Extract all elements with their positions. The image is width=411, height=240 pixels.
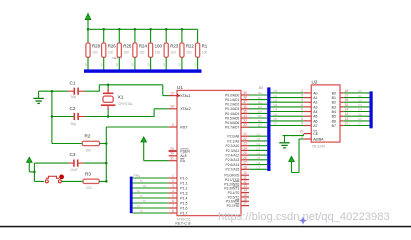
svg-text:10: 10 (146, 63, 150, 67)
junction on top rail (118, 28, 121, 31)
wire to RST pin (106, 126, 168, 128)
svg-text:R3: R3 (85, 172, 91, 177)
pin 14 B4 (U2 right) (332, 108, 349, 114)
capacitor C3 (69, 152, 85, 172)
pin 23 P2.2/A10 (U1 right) (226, 142, 249, 148)
bus BR (below resistors) (84, 69, 202, 72)
resistor R25 (115, 29, 132, 69)
svg-text:23: 23 (243, 142, 247, 146)
svg-text:37: 37 (243, 100, 247, 104)
svg-text:C5: C5 (257, 156, 261, 160)
pin 18 XTAL2 (U1 left) (169, 105, 191, 112)
wire RST vertical (105, 127, 107, 181)
svg-text:21: 21 (243, 132, 247, 136)
svg-text:B2: B2 (332, 101, 336, 105)
XTAL1 pin arrow (177, 94, 180, 98)
svg-text:73: 73 (143, 199, 147, 203)
wire left vertical to R2 (52, 143, 82, 145)
svg-text:B3: B3 (332, 105, 336, 109)
svg-text:27: 27 (243, 161, 247, 165)
wire P2.3 to bus (249, 149, 267, 151)
pin 35 P0.4/AD4 (U1 right) (225, 109, 249, 115)
svg-text:35: 35 (243, 109, 247, 113)
pin 37 P0.2/AD2 (U1 right) (225, 100, 249, 106)
op-amp U2 body (74LS245) (311, 85, 340, 142)
pin 16 P3.6/WR (U1 right) (226, 197, 249, 203)
svg-text:D1: D1 (274, 94, 278, 98)
junction R2 / RST vertical (105, 142, 108, 145)
wire P0.0 to bus (249, 94, 267, 96)
svg-text:R26: R26 (108, 44, 117, 49)
wire P0.1 to bus (249, 99, 267, 101)
svg-text:30: 30 (170, 152, 174, 156)
svg-text:P0.0/AD0: P0.0/AD0 (225, 93, 239, 97)
svg-text:18: 18 (170, 105, 174, 109)
junction crystal top (107, 84, 110, 87)
svg-text:D6: D6 (274, 117, 278, 121)
svg-text:32: 32 (243, 123, 247, 127)
pin 36 P0.3/AD3 (U1 right) (225, 105, 249, 111)
svg-text:15: 15 (243, 193, 247, 197)
svg-text:9: 9 (301, 122, 303, 126)
svg-text:P0.1/AD1: P0.1/AD1 (225, 98, 239, 102)
svg-text:A1: A1 (313, 96, 317, 100)
svg-text:7: 7 (172, 204, 174, 208)
pin 5 A3 (U2 left) (301, 103, 317, 109)
svg-text:28: 28 (243, 165, 247, 169)
svg-text:13: 13 (243, 184, 247, 188)
svg-text:D2: D2 (274, 98, 278, 102)
svg-text:74LS245: 74LS245 (312, 145, 326, 149)
capacitor C1 (68, 80, 86, 99)
pin 12 B6 (U2 right) (332, 117, 349, 123)
svg-text:71: 71 (140, 179, 144, 183)
svg-text:75: 75 (140, 209, 144, 213)
svg-text:D5: D5 (258, 114, 262, 118)
svg-text:300: 300 (86, 148, 92, 152)
wire P1.2 to bus (133, 187, 169, 189)
wire bus to U2 A1 (271, 97, 304, 99)
svg-text:100: 100 (155, 44, 163, 49)
svg-text:72: 72 (140, 194, 144, 198)
wire P2.5 to bus (249, 159, 267, 161)
wire C3 left vertical (33, 163, 35, 181)
junction R3 / RST vertical (105, 180, 108, 183)
power symbol VCC (top rail) (85, 14, 90, 20)
resistor R24 (131, 29, 148, 69)
pin 15 P3.5/T1 (U1 right) (228, 193, 249, 199)
wire P2.4 to bus (249, 154, 267, 156)
pin 4 P1.3 (U1 left) (169, 189, 188, 196)
pin 13 B5 (U2 right) (332, 112, 349, 118)
svg-text:C7: C7 (257, 166, 261, 170)
wire U2 B7 to bus (344, 125, 370, 127)
power symbol VCC (reset) (27, 157, 32, 162)
svg-text:70: 70 (137, 189, 141, 193)
junction C3 / RST vertical (105, 162, 108, 165)
svg-text:100: 100 (108, 50, 114, 54)
svg-text:EA: EA (180, 159, 185, 163)
svg-text:100: 100 (124, 50, 130, 54)
svg-text:100: 100 (92, 50, 98, 54)
wire U2 B1 to bus (344, 97, 370, 99)
svg-text:17: 17 (345, 94, 349, 98)
wire switch to R3 (61, 180, 83, 182)
wire C3 left (34, 162, 68, 164)
svg-text:R25: R25 (123, 44, 132, 49)
svg-text:C0: C0 (257, 132, 261, 136)
pin 13 P3.3/INT1 (U1 right) (224, 184, 249, 190)
svg-text:11: 11 (243, 176, 247, 180)
svg-text:30p: 30p (71, 122, 77, 126)
svg-text:A0: A0 (313, 91, 317, 95)
svg-text:XTAL1: XTAL1 (180, 94, 190, 98)
svg-text:10: 10 (193, 63, 197, 67)
wire P0.5 to bus (249, 117, 267, 119)
svg-text:AB/BA: AB/BA (313, 137, 324, 141)
wire P1.0 to bus (133, 177, 169, 179)
wire switch row left (34, 180, 44, 182)
wire arrow hook (29, 171, 34, 173)
svg-text:D4: D4 (258, 110, 262, 114)
svg-text:P0.2/AD2: P0.2/AD2 (225, 103, 239, 107)
junction C2 left (51, 115, 54, 118)
svg-text:P2.7/A15: P2.7/A15 (226, 168, 240, 172)
svg-text:39: 39 (243, 91, 247, 95)
svg-text:P3.1/TXD: P3.1/TXD (225, 178, 240, 182)
pin 3 P1.2 (U1 left) (169, 184, 188, 191)
svg-text:D2: D2 (258, 100, 262, 104)
svg-text:P0.4/AD4: P0.4/AD4 (225, 112, 239, 116)
svg-text:P2.0/A8: P2.0/A8 (227, 135, 239, 139)
svg-text:P3.7/RD: P3.7/RD (227, 204, 240, 208)
junction on top rail (134, 28, 137, 31)
junction on top rail (87, 28, 90, 31)
svg-text:C1: C1 (358, 94, 362, 98)
svg-text:D7: D7 (258, 123, 262, 127)
svg-text:100: 100 (139, 50, 145, 54)
svg-text:D3: D3 (274, 103, 278, 107)
svg-text:A5: A5 (313, 115, 317, 119)
svg-text:R28: R28 (92, 44, 101, 49)
wire bus to U2 A4 (271, 111, 304, 113)
pin 32 P0.7/AD7 (U1 right) (225, 123, 249, 129)
junction arrow / C3 vertical (33, 171, 36, 174)
wire P1.3 to bus (133, 192, 169, 194)
svg-text:34: 34 (243, 114, 247, 118)
svg-text:C6: C6 (358, 117, 362, 121)
pin 33 P0.6/AD6 (U1 right) (225, 119, 249, 125)
svg-text:P2.1/A9: P2.1/A9 (227, 139, 239, 143)
svg-text:19: 19 (299, 130, 303, 134)
pin 1 P1.0 (U1 left) (169, 174, 188, 181)
pin 8 P1.7 (U1 left) (169, 209, 188, 216)
wire P2.1 to bus (249, 140, 267, 142)
wire EA (144, 160, 169, 162)
pin 11 P3.1/TXD (U1 right) (225, 176, 249, 182)
svg-text:C1: C1 (70, 80, 76, 85)
svg-text:13: 13 (345, 112, 349, 116)
svg-text:C3: C3 (257, 147, 261, 151)
svg-text:P1.0: P1.0 (180, 176, 187, 180)
svg-text:36: 36 (243, 105, 247, 109)
pin 29 PSEN (U1 left) (169, 147, 191, 154)
svg-text:16: 16 (345, 98, 349, 102)
wire C1 to XTAL1 (85, 90, 99, 92)
svg-text:1: 1 (172, 174, 174, 178)
svg-text:2: 2 (301, 89, 303, 93)
pin 22 P2.1/A9 (U1 right) (227, 137, 249, 143)
wire ground to C1 (39, 90, 68, 92)
pin 17 P3.7/RD (U1 right) (227, 202, 249, 208)
junction on top rail (149, 28, 152, 31)
pin 9 RST (U1 left) (169, 123, 189, 130)
wire bus to U2 A6 (271, 120, 304, 122)
wire U2 B2 to bus (344, 101, 370, 103)
junction at left vertical / C1 wire (51, 90, 54, 93)
wire P0.6 to bus (249, 122, 267, 124)
svg-text:8: 8 (172, 209, 174, 213)
pin 8 A6 (U2 left) (301, 117, 317, 123)
pin 34 P0.5/AD5 (U1 right) (225, 114, 249, 120)
svg-text:22: 22 (243, 137, 247, 141)
svg-text:P1.6: P1.6 (180, 206, 187, 210)
svg-text:P3.3/INT1: P3.3/INT1 (224, 187, 239, 191)
junction on top rail (181, 28, 184, 31)
wire P2.2 to bus (249, 145, 267, 147)
svg-text:100: 100 (155, 50, 161, 54)
pin 9 A7 (U2 left) (301, 122, 317, 128)
svg-text:CRYSTAL: CRYSTAL (118, 102, 133, 106)
junction on top rail (102, 28, 105, 31)
svg-text:C3: C3 (70, 152, 76, 157)
pin 25 P2.4/A12 (U1 right) (226, 151, 249, 157)
svg-text:2: 2 (172, 179, 174, 183)
svg-text:12: 12 (345, 117, 349, 121)
svg-text:R22: R22 (186, 44, 195, 49)
svg-text:P0.7/AD7: P0.7/AD7 (225, 126, 239, 130)
svg-text:C5: C5 (358, 112, 362, 116)
svg-text:6: 6 (301, 108, 303, 112)
svg-text:B1: B1 (332, 96, 336, 100)
pin 27 P2.6/A14 (U1 right) (226, 161, 249, 167)
svg-text:10: 10 (115, 63, 119, 67)
bottom border line (0, 226, 411, 228)
svg-text:11: 11 (345, 122, 349, 126)
svg-text:P1.7: P1.7 (180, 211, 187, 215)
crystal X1 (101, 89, 133, 110)
pin 21 P2.0/A8 (U1 right) (227, 132, 249, 138)
svg-text:P0.3/AD3: P0.3/AD3 (225, 107, 239, 111)
pin 19 XTAL1 (U1 left) (169, 91, 191, 98)
svg-text:10uF: 10uF (70, 168, 78, 172)
push button switch (45, 175, 64, 183)
svg-text:B0: B0 (259, 86, 263, 90)
wire top rail (88, 28, 198, 30)
svg-text:7: 7 (301, 112, 303, 116)
wire R3 right (99, 180, 106, 182)
svg-text:D0: D0 (258, 91, 262, 95)
svg-text:17: 17 (243, 202, 247, 206)
svg-text:18: 18 (345, 89, 349, 93)
svg-text:C2: C2 (358, 98, 362, 102)
wire P0.3 to bus (249, 108, 267, 110)
svg-text:C4: C4 (257, 151, 261, 155)
svg-text:4: 4 (301, 98, 303, 102)
svg-text:100: 100 (202, 50, 208, 54)
ground (U2 CE) (284, 136, 286, 143)
svg-text:R23: R23 (170, 44, 179, 49)
wire C2 to XTAL2 (85, 116, 154, 118)
svg-text:P2.3/A11: P2.3/A11 (226, 149, 240, 153)
svg-text:8: 8 (301, 117, 303, 121)
junction on top rail (165, 28, 168, 31)
svg-text:R1: R1 (202, 44, 208, 49)
svg-text:A4: A4 (313, 110, 317, 114)
bus P1 (left of U1) (130, 177, 133, 214)
blue sparkle (299, 217, 307, 225)
svg-text:D0: D0 (274, 89, 278, 93)
svg-text:P1.5: P1.5 (180, 201, 187, 205)
wire U2 B5 to bus (344, 115, 370, 117)
pin 11 B7 (U2 right) (332, 122, 349, 128)
svg-text:P0.6/AD6: P0.6/AD6 (225, 121, 239, 125)
svg-text:C7: C7 (358, 122, 362, 126)
pin 7 P1.6 (U1 left) (169, 204, 188, 211)
pin 15 B3 (U2 right) (332, 103, 349, 109)
pin 2 P1.1 (U1 left) (169, 179, 188, 186)
wire bus to U2 A2 (271, 101, 304, 103)
svg-text:33: 33 (243, 119, 247, 123)
svg-text:R24: R24 (139, 44, 148, 49)
wire left vertical C1-C2-R2 (51, 91, 53, 143)
wire P2.0 to bus (249, 135, 267, 137)
pin 19 CE (U2) (299, 130, 318, 136)
resistor R28 (84, 29, 101, 69)
resistor 100 (146, 29, 162, 69)
svg-text:XTAL2: XTAL2 (180, 107, 190, 111)
pin 1 AB/BA (U2) (301, 135, 324, 141)
pin 10 P3.0/RXD (U1 right) (224, 171, 249, 177)
ground (crystal circuit) (38, 91, 40, 98)
svg-text:P2.4/A12: P2.4/A12 (226, 154, 240, 158)
svg-text:6: 6 (172, 199, 174, 203)
power symbol VCC (EA pin) (141, 137, 146, 142)
wire CE to ground (283, 135, 304, 137)
svg-text:220: 220 (86, 186, 92, 190)
svg-text:25: 25 (243, 151, 247, 155)
resistor R26 (100, 29, 117, 69)
svg-text:R2: R2 (85, 134, 91, 139)
svg-text:B6: B6 (332, 119, 336, 123)
svg-text:19: 19 (170, 91, 174, 95)
wire P1.6 to bus (133, 207, 169, 209)
svg-text:D2: D2 (143, 184, 147, 188)
svg-text:31: 31 (170, 157, 174, 161)
svg-text:100: 100 (186, 50, 192, 54)
pin 39 P0.0/AD0 (U1 right) (225, 91, 249, 97)
svg-text:B4: B4 (332, 110, 336, 114)
wire VCC to AB/BA pin (292, 172, 300, 174)
svg-text:C0: C0 (358, 89, 362, 93)
svg-text:D1: D1 (137, 174, 141, 178)
svg-text:74: 74 (137, 204, 141, 208)
wire bus to U2 A3 (271, 106, 304, 108)
svg-text:30p: 30p (71, 95, 77, 99)
op-amp U1 body (MCU AT89C51) (177, 90, 241, 215)
bus BD (between U1 and U2) (267, 87, 270, 171)
resistor R23 (162, 29, 179, 69)
svg-text:3: 3 (301, 94, 303, 98)
svg-text:C4: C4 (358, 108, 362, 112)
svg-text:D1: D1 (258, 96, 262, 100)
svg-text:C6: C6 (257, 161, 261, 165)
svg-text:C2: C2 (257, 142, 261, 146)
svg-text:P3.5/T1: P3.5/T1 (228, 195, 240, 199)
svg-text:RST: RST (180, 125, 188, 129)
svg-text:A7: A7 (313, 124, 317, 128)
svg-text:B0: B0 (332, 91, 336, 95)
wire U2 B3 to bus (344, 106, 370, 108)
pin 28 P2.7/A15 (U1 right) (226, 165, 249, 171)
pin 17 B1 (U2 right) (332, 94, 349, 100)
wire U2 B0 to bus (344, 92, 370, 94)
pin 2 A0 (U2 left) (301, 89, 317, 95)
svg-text:A3: A3 (313, 105, 317, 109)
svg-text:10: 10 (162, 63, 166, 67)
svg-text:D6: D6 (258, 119, 262, 123)
svg-text:X1: X1 (118, 95, 124, 101)
resistor R3 (83, 172, 99, 191)
svg-text:P1.3: P1.3 (180, 191, 187, 195)
svg-text:D5: D5 (274, 112, 278, 116)
power symbol VCC (U2 AB/BA) (289, 156, 294, 161)
svg-text:B7: B7 (332, 124, 336, 128)
svg-text:14: 14 (345, 108, 349, 112)
wire P2.7 to bus (249, 168, 267, 170)
pin 24 P2.3/A11 (U1 right) (226, 146, 249, 152)
svg-text:U2: U2 (312, 80, 318, 85)
svg-text:NET~7: NET~7 (113, 56, 123, 60)
svg-text:C2: C2 (70, 106, 76, 111)
svg-text:D3: D3 (258, 105, 262, 109)
svg-text:29: 29 (170, 147, 174, 151)
svg-text:10: 10 (131, 63, 135, 67)
pin 31 EA (U1 left) (169, 157, 186, 164)
pin 30 ALE (U1 left) (169, 152, 188, 159)
svg-text:24: 24 (243, 146, 247, 150)
svg-text:P1.2: P1.2 (180, 186, 187, 190)
pin 26 P2.5/A13 (U1 right) (226, 156, 249, 162)
capacitor C2 (52, 106, 85, 126)
svg-text:4: 4 (172, 189, 174, 193)
wire P0.4 to bus (249, 112, 267, 114)
svg-text:A2: A2 (313, 101, 317, 105)
wire P0.7 to bus (249, 126, 267, 128)
wire P0.2 to bus (249, 103, 267, 105)
svg-text:P2.5/A13: P2.5/A13 (226, 158, 240, 162)
pin 6 A4 (U2 left) (301, 108, 317, 114)
wire P1.7 to bus (133, 212, 169, 214)
wire R2 right (100, 143, 107, 145)
bus BC (right of U2) (370, 91, 373, 128)
svg-text:100: 100 (170, 50, 176, 54)
wire U2 B4 to bus (344, 111, 370, 113)
svg-text:D7: D7 (274, 122, 278, 126)
wire crystal bottom lead (107, 110, 109, 117)
svg-text:P1.4: P1.4 (180, 196, 187, 200)
svg-text:9: 9 (172, 123, 174, 127)
